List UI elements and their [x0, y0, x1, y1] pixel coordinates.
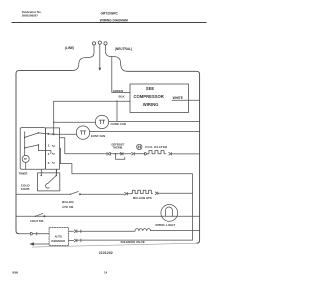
node: bus end at terminal 2 [53, 134, 55, 136]
connector pair on defrost line [107, 152, 110, 155]
terminal hook 3 [52, 161, 55, 164]
plug prong loop left [92, 42, 95, 45]
node: cold control contact left [41, 175, 43, 177]
svg-text:(NEUTRAL): (NEUTRAL) [115, 47, 132, 51]
wire: defrost line to neutral [172, 153, 200, 155]
node: defrost line junction [115, 153, 117, 155]
wire: black line feed to compressor [54, 100, 130, 102]
node: cold control contact right [56, 175, 58, 177]
wire: mullion line middle [81, 193, 124, 195]
wire: light line [16, 215, 200, 217]
mullion heater element [131, 190, 152, 193]
defrost timer box [20, 128, 45, 170]
wire: arm2 to terminal 4 [38, 145, 51, 154]
node: timer contact b [24, 147, 26, 149]
node: bus drop junction [116, 101, 117, 102]
compressor box U1 [130, 84, 189, 113]
wire: right vertical bus [192, 174, 194, 240]
wire: timer motor to box bottom [25, 162, 27, 169]
wire: line prong lead [89, 45, 94, 57]
wire: icemaker lower lead [34, 243, 50, 245]
svg-text:14: 14 [104, 270, 108, 274]
svg-text:4: 4 [48, 152, 50, 156]
timer switch arm 1 [25, 133, 39, 138]
svg-text:EVAP. FAN: EVAP. FAN [91, 134, 105, 138]
cold control bellows curl [46, 184, 50, 189]
wire: short segment [128, 193, 132, 195]
wire: cold control right stem [55, 170, 57, 176]
wire: icemaker feed to box [37, 233, 49, 235]
svg-text:COMPRESSOR: COMPRESSOR [134, 94, 164, 99]
wire: icemaker out bottom [69, 239, 74, 241]
icemaker lower lead arrow [29, 242, 34, 246]
wire: ground prong lead [99, 44, 101, 67]
connector right of mullion heater [155, 192, 158, 195]
connector: defrost therm left [120, 153, 123, 156]
wire: terminal 1 jog down [60, 148, 61, 163]
plug prong loop middle [98, 41, 101, 44]
svg-text:ICEMAKER: ICEMAKER [51, 239, 65, 243]
svg-text:WIRING DIAGRAM: WIRING DIAGRAM [100, 18, 128, 22]
svg-text:8/95: 8/95 [13, 270, 19, 274]
wire: evap fan left from terminal 2 [54, 133, 77, 135]
cold control box [38, 173, 60, 191]
ground arrow [98, 68, 101, 71]
plug prong loop right [104, 42, 107, 45]
svg-text:TIMER: TIMER [19, 171, 29, 175]
svg-text:HTR. SW.: HTR. SW. [63, 206, 74, 209]
motor cond fan internal mark [99, 120, 105, 124]
svg-text:WIRING: WIRING [143, 102, 159, 107]
node: bus to cond fan junction [53, 122, 54, 123]
wire: cond fan right to neutral [109, 120, 200, 122]
wire: solenoid line to neutral [151, 230, 200, 232]
defrost timer terminal strip [46, 128, 60, 169]
wire: outer border right (neutral side) [127, 71, 200, 243]
svg-text:2: 2 [48, 132, 50, 136]
timer switch arm 2 [25, 145, 39, 148]
svg-text:COIL HEATER: COIL HEATER [145, 145, 168, 149]
wire: green ground to compressor [112, 57, 130, 93]
svg-text:MULLION: MULLION [62, 201, 74, 204]
auto icemaker box (dashed) [49, 228, 69, 246]
wire: icemaker out top [69, 230, 74, 232]
svg-text:3: 3 [48, 161, 50, 165]
defrost limit thermostat circle [137, 144, 142, 149]
connector after defrost therm [145, 153, 148, 156]
solenoid valve coil [135, 229, 151, 231]
svg-text:WHITE: WHITE [173, 96, 183, 100]
node: timer contact a [24, 137, 26, 139]
connector on icemaker top feed [31, 232, 37, 235]
wire: mullion line right to bus [158, 192, 192, 194]
wire: arm1 to terminal 2 [38, 133, 53, 135]
terminal hook 2 [52, 133, 55, 136]
node: timer arm1 tip [38, 132, 40, 134]
wire: defrost line segment [111, 153, 131, 155]
wire: white compressor to neutral border [172, 99, 200, 101]
svg-text:GRT20GRC: GRT20GRC [101, 11, 119, 15]
terminal hook 1 [52, 144, 55, 147]
svg-text:GREEN: GREEN [113, 89, 123, 93]
wire: neutral prong lead [106, 45, 112, 57]
connector icemaker out bottom [74, 239, 81, 242]
wire: left bus down to timer terminal 2 [53, 101, 55, 134]
wire: cold control left stem [40, 169, 42, 175]
bulb filament loop [165, 207, 172, 216]
svg-text:2101202: 2101202 [99, 251, 113, 255]
svg-text:THERM.: THERM. [113, 146, 124, 150]
node: mullion switch pivot [70, 194, 71, 195]
motor: condenser fan [95, 115, 108, 128]
mullion switch arm [70, 192, 78, 195]
connector right of coil heater [169, 153, 172, 156]
wire: terminal 3 staircase to right bus [60, 164, 193, 174]
timer motor TP [22, 155, 29, 162]
svg-text:SEE: SEE [146, 86, 155, 91]
connector pair left of mullion heater [125, 192, 128, 195]
node: timer arm2 tip [38, 144, 40, 146]
wire: terminal 2 feed to defrost heater line [60, 138, 65, 154]
wire: defrost segment 2 [135, 153, 145, 155]
coil heater element [147, 151, 165, 154]
header rule [12, 21, 207, 24]
wire: drop from black feed to cond fan line [116, 101, 118, 121]
svg-text:COND. FAN: COND. FAN [111, 122, 126, 126]
wire: evap fan right to neutral [90, 131, 200, 133]
terminal hook 4 [52, 152, 55, 155]
svg-text:TP: TP [24, 158, 27, 161]
motor: evaporator fan [76, 126, 89, 139]
svg-text:BLK: BLK [119, 95, 126, 99]
svg-text:SOLENOID VALVE: SOLENOID VALVE [121, 240, 145, 244]
wire: outer border loop (line/neutral bus) [16, 71, 72, 234]
wire: timer strip bottom stub to line [56, 169, 58, 174]
wire: staircase tap below defrost line [116, 154, 125, 160]
connector icemaker out top [74, 230, 81, 233]
svg-text:CONT.: CONT. [21, 187, 30, 191]
defrost limit internal H [138, 146, 140, 149]
motor evap fan internal mark [80, 131, 86, 135]
wire: mullion line left [16, 193, 70, 195]
wire: cond fan left [54, 121, 96, 123]
cold control switch arm [48, 175, 57, 183]
mullion switch fixed contact [79, 194, 80, 195]
svg-text:(LINE): (LINE) [65, 46, 74, 50]
svg-text:5995209297: 5995209297 [22, 13, 38, 17]
wire: cord entry bump right shoulder [112, 57, 127, 72]
node: light switch pivot [35, 216, 36, 217]
timer internal rail [24, 132, 26, 156]
light switch fixed contact [44, 216, 45, 217]
svg-text:MULLION HTR.: MULLION HTR. [133, 196, 153, 200]
wire: cord entry bump left shoulder [72, 57, 89, 70]
svg-text:1: 1 [48, 144, 50, 148]
connector pair before coil heater [132, 153, 135, 156]
wire: icemaker bottom to bus [77, 239, 192, 241]
wire: solenoid line [77, 230, 135, 232]
interior light bulb [161, 205, 178, 222]
light switch arm [36, 213, 43, 216]
wire: defrost heater line left segment [65, 153, 107, 155]
wire: faint bottom border [32, 243, 197, 247]
svg-text:LIGHT SW.: LIGHT SW. [30, 219, 44, 223]
svg-text:AUTO: AUTO [55, 234, 62, 238]
wire: icemaker top feed from border corner [19, 233, 30, 235]
svg-text:INTER. LIGHT: INTER. LIGHT [156, 223, 176, 227]
